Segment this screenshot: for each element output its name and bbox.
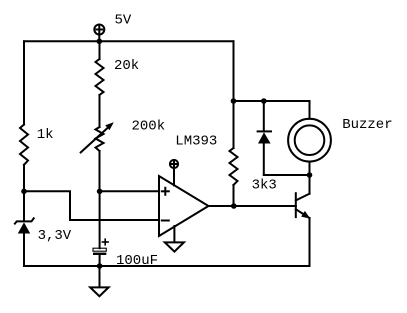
wire 1k to divider node (23, 165, 25, 192)
5V power symbol (94, 25, 104, 42)
wire capacitor to bottom rail (99, 255, 101, 266)
ground main (90, 266, 108, 296)
wire output (209, 205, 234, 207)
op-amp power pin (170, 160, 178, 185)
node divider left (21, 189, 27, 195)
wire zener to bottom rail (23, 234, 25, 267)
wire node to capacitor (99, 191, 101, 248)
svg-text:LM393: LM393 (175, 133, 217, 149)
node diode top (261, 98, 267, 104)
wire plus input (100, 190, 159, 192)
svg-text:3k3: 3k3 (252, 177, 277, 193)
node 5V junction (97, 39, 103, 45)
svg-text:1k: 1k (37, 127, 54, 143)
capacitor C1 (93, 239, 108, 255)
wire 5V node to 20k (99, 41, 101, 59)
wire bottom rail (24, 265, 310, 267)
node capacitor ground (97, 263, 103, 269)
wire emitter to bottom rail (309, 218, 311, 266)
buzzer BZ1 (288, 101, 331, 162)
potentiometer R3 200k (81, 122, 114, 152)
resistor R1 1k (20, 125, 28, 165)
wire left rail (23, 41, 25, 124)
node plus input (97, 189, 103, 195)
node 3k3 top (231, 98, 237, 104)
wire buzzer to collector node (309, 162, 311, 175)
diode D2 (258, 101, 271, 175)
svg-text:200k: 200k (132, 119, 166, 135)
transistor Q1 (296, 175, 310, 219)
node output (231, 203, 237, 209)
wire top rail (24, 40, 234, 42)
svg-text:20k: 20k (114, 58, 139, 74)
wire output to base (234, 205, 296, 207)
wire pot to plus node (99, 151, 101, 191)
wire node to zener (23, 191, 25, 220)
svg-text:Buzzer: Buzzer (342, 117, 392, 133)
svg-text:3,3V: 3,3V (38, 228, 72, 244)
wire diode bottom to collector node (264, 174, 310, 176)
wire supply row to buzzer (234, 100, 310, 102)
svg-text:100uF: 100uF (116, 253, 158, 269)
op-amp ground pin (165, 226, 184, 252)
node collector (307, 172, 313, 178)
op-amp U1 (159, 176, 209, 236)
zener diode D1 (15, 218, 34, 233)
wire 20k to pot (99, 95, 101, 127)
wire top rail drop (233, 41, 235, 101)
resistor R2 20k (96, 59, 104, 95)
wire minus input step (24, 191, 159, 220)
resistor R4 3k3 (230, 101, 238, 206)
svg-text:5V: 5V (115, 13, 132, 29)
